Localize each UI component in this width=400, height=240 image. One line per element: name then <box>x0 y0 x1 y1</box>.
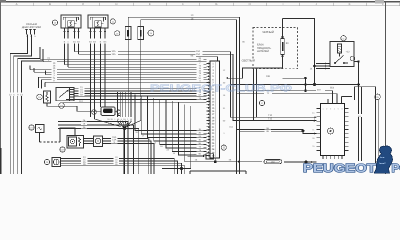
svg-text:СВЕТЛЫЙ: СВЕТЛЫЙ <box>242 59 255 63</box>
svg-text:10A: 10A <box>196 50 201 53</box>
svg-text:5A: 5A <box>80 93 83 96</box>
svg-text:PEUGEOT-CLUB.РФ: PEUGEOT-CLUB.РФ <box>150 83 292 94</box>
svg-text:ЧЕРНЫЙ: ЧЕРНЫЙ <box>262 30 274 34</box>
svg-text:6: 6 <box>341 107 342 110</box>
svg-text:4: 4 <box>334 107 335 110</box>
svg-text:T15: T15 <box>268 118 273 121</box>
svg-text:G: G <box>215 2 217 6</box>
svg-text:A: A <box>16 2 18 6</box>
svg-text:E: E <box>149 2 151 6</box>
svg-text:K: K <box>349 2 351 6</box>
svg-text:10Б: 10Б <box>266 75 271 78</box>
svg-text:C: C <box>82 2 84 6</box>
svg-text:31: 31 <box>312 145 314 148</box>
svg-text:5: 5 <box>338 107 339 110</box>
svg-text:10A: 10A <box>112 50 117 53</box>
svg-text:НИТЕЛЕЙ: НИТЕЛЕЙ <box>257 49 269 53</box>
svg-text:2: 2 <box>326 107 327 110</box>
svg-text:25: 25 <box>312 137 314 140</box>
svg-text:8: 8 <box>313 120 314 123</box>
svg-text:3: 3 <box>330 107 331 110</box>
svg-text:PEUGEOT: PEUGEOT <box>303 161 377 174</box>
svg-text:T1: T1 <box>312 128 314 131</box>
svg-text:H: H <box>249 2 251 6</box>
svg-text:ДИАГНОСТИКИ: ДИАГНОСТИКИ <box>22 26 41 29</box>
svg-text:РФ: РФ <box>392 161 400 174</box>
svg-text:D: D <box>115 2 117 6</box>
svg-text:1Б: 1Б <box>83 163 86 166</box>
svg-text:+12: +12 <box>345 51 350 54</box>
svg-text:F: F <box>182 2 184 6</box>
svg-text:1: 1 <box>322 107 323 110</box>
svg-text:B: B <box>49 2 51 6</box>
svg-text:15A: 15A <box>196 53 201 56</box>
svg-text:15A: 15A <box>112 53 117 56</box>
